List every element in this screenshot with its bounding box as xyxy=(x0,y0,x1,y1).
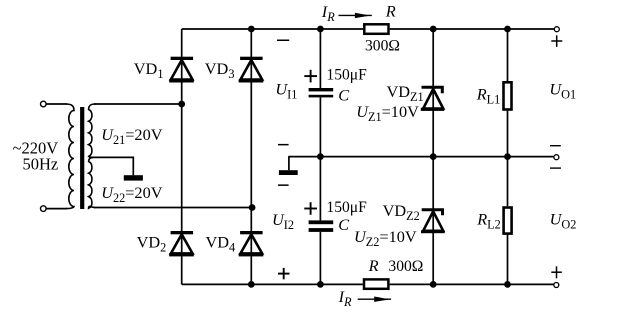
svg-text:VD1: VD1 xyxy=(134,59,164,81)
wire load column middle xyxy=(507,111,509,207)
svg-text:R: R xyxy=(385,2,396,21)
node top rail / RL1 xyxy=(504,26,511,33)
node bottom rail / VDZ2 xyxy=(430,281,437,288)
svg-text:UO2: UO2 xyxy=(550,210,577,232)
wire VD3-VD4 column xyxy=(250,29,252,284)
polarity minus top of UI2 xyxy=(278,184,289,186)
polarity plus at C1 xyxy=(304,70,317,83)
wire load column lower xyxy=(507,235,509,285)
wire top rail right segment xyxy=(390,28,554,30)
node top rail / C1 xyxy=(317,26,324,33)
svg-text:UZ2=10V: UZ2=10V xyxy=(354,227,417,249)
wire primary top lead xyxy=(46,103,67,105)
wire bottom rail left segment xyxy=(182,283,363,285)
node mid rail / C xyxy=(317,153,324,160)
node mid rail / zener xyxy=(430,153,437,160)
resistor RL1 xyxy=(504,82,512,109)
wire center tap lead xyxy=(89,157,133,175)
svg-text:150μF: 150μF xyxy=(326,67,367,84)
svg-text:U22=20V: U22=20V xyxy=(101,183,163,205)
svg-text:RL2: RL2 xyxy=(476,210,501,232)
svg-text:U21=20V: U21=20V xyxy=(101,125,163,147)
wire capacitor column upper xyxy=(319,29,321,88)
primary terminal top xyxy=(41,101,47,107)
svg-text:300Ω: 300Ω xyxy=(388,258,423,275)
zener diode VDZ2 xyxy=(421,210,445,234)
svg-text:UI1: UI1 xyxy=(275,79,297,101)
output terminal UO1+ xyxy=(554,27,559,32)
transformer core xyxy=(80,107,84,209)
ground (center tap) xyxy=(124,175,143,180)
transformer T primary winding xyxy=(66,104,74,209)
polarity minus UO2 top xyxy=(550,167,561,168)
polarity plus UO2 xyxy=(551,266,562,278)
primary terminal bottom xyxy=(41,206,47,212)
svg-text:VD2: VD2 xyxy=(137,233,167,255)
transformer secondary winding 2 xyxy=(89,157,95,208)
node bottom rail / VD4 xyxy=(248,281,255,288)
wire capacitor column lower xyxy=(319,232,321,284)
polarity minus top of UI1 xyxy=(277,40,289,42)
svg-text:R: R xyxy=(368,256,379,275)
output terminal mid xyxy=(554,155,559,160)
wire mid-rail ground stub xyxy=(288,157,290,171)
zener diode VDZ1 xyxy=(421,87,444,111)
node top rail / VD3 xyxy=(248,26,255,33)
ground (mid rail) xyxy=(279,170,298,175)
arrow IR top xyxy=(339,13,372,18)
svg-text:VD4: VD4 xyxy=(206,233,236,255)
arrow IR bottom xyxy=(358,297,391,302)
node secondary top / VD1 column xyxy=(178,101,185,108)
wire middle rail xyxy=(288,156,553,158)
svg-text:50Hz: 50Hz xyxy=(23,154,59,173)
polarity minus bottom of UI1 xyxy=(278,144,289,146)
wire secondary top lead xyxy=(94,103,182,105)
output terminal UO2+ xyxy=(554,283,559,288)
wire capacitor column middle xyxy=(319,97,321,220)
svg-text:C: C xyxy=(338,215,350,234)
wire load column upper xyxy=(507,29,509,81)
resistor RL2 xyxy=(504,208,512,234)
svg-text:300Ω: 300Ω xyxy=(365,37,400,54)
svg-text:VD3: VD3 xyxy=(205,59,235,81)
svg-text:150μF: 150μF xyxy=(326,199,367,216)
svg-text:C: C xyxy=(338,85,350,104)
wire bottom rail right segment xyxy=(390,283,554,285)
polarity plus UO1 xyxy=(551,35,562,47)
transformer secondary winding 1 xyxy=(89,104,95,157)
svg-text:IR: IR xyxy=(338,287,352,309)
capacitor C2 plates xyxy=(309,220,334,232)
diode VD4 xyxy=(239,231,264,256)
polarity plus bottom of UI2 xyxy=(278,268,290,279)
node mid rail / RL xyxy=(504,153,511,160)
diode VD2 xyxy=(169,231,194,256)
node bottom rail / RL2 xyxy=(504,281,511,288)
resistor R top xyxy=(364,24,388,34)
wire primary bottom lead xyxy=(46,208,67,210)
wire top rail left segment xyxy=(182,28,363,30)
diode VD3 xyxy=(239,57,264,83)
wire zener column xyxy=(432,29,434,284)
svg-text:VDZ1: VDZ1 xyxy=(387,82,424,104)
node secondary bottom / VD4 column xyxy=(249,204,256,211)
svg-text:UZ1=10V: UZ1=10V xyxy=(356,102,419,124)
wire secondary bottom lead xyxy=(94,207,252,209)
node bottom rail / C2 xyxy=(317,281,324,288)
polarity minus UO1 bottom xyxy=(550,145,561,146)
resistor R bottom xyxy=(364,279,388,288)
capacitor C1 plates xyxy=(309,88,334,97)
svg-text:RL1: RL1 xyxy=(476,85,501,107)
svg-text:IR: IR xyxy=(321,2,335,24)
svg-text:UI2: UI2 xyxy=(272,210,294,232)
node top rail / VDZ1 xyxy=(430,26,437,33)
diode VD1 xyxy=(169,57,194,83)
wire VD1-VD2 column xyxy=(181,29,183,284)
svg-text:VDZ2: VDZ2 xyxy=(383,201,420,223)
polarity plus at C2 xyxy=(304,202,317,215)
svg-text:UO1: UO1 xyxy=(549,80,576,102)
